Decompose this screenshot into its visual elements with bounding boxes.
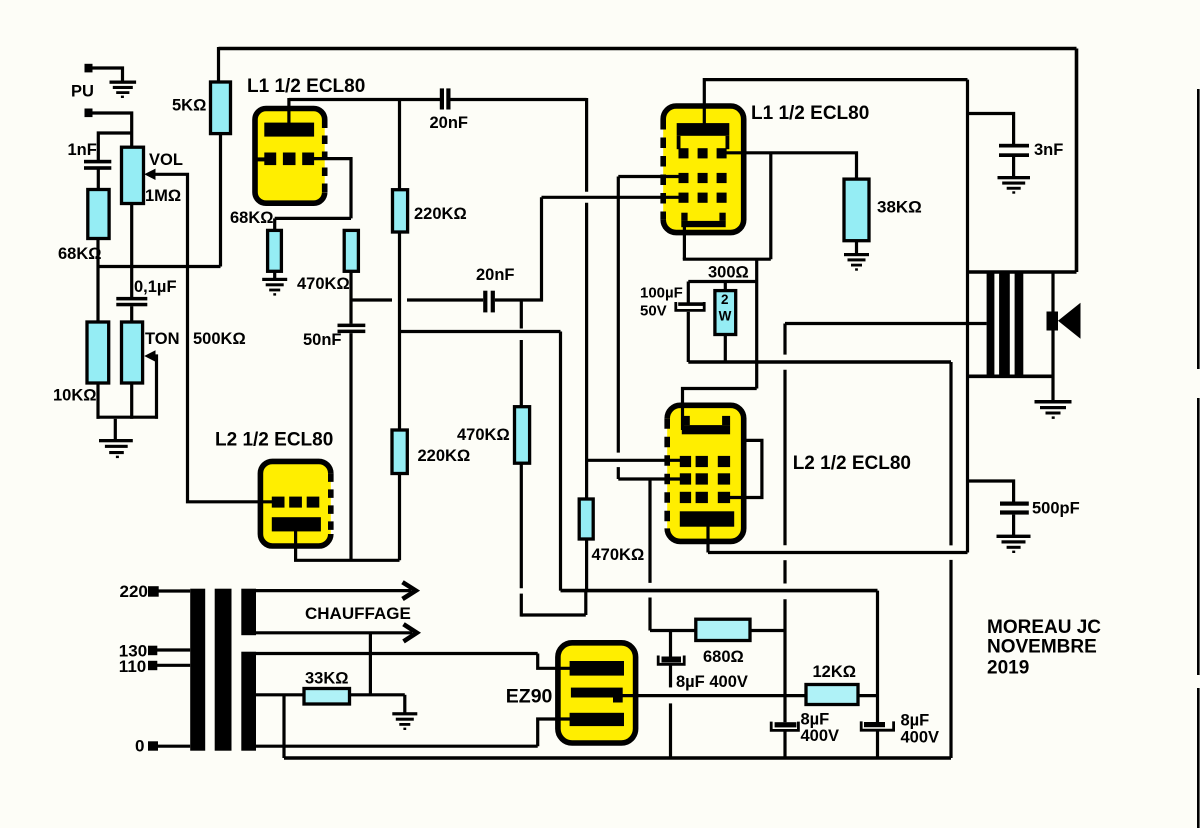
wire 500pF branch y481 (968, 481, 1014, 502)
ground G8 heater (392, 712, 417, 730)
wire x785 seg1 (783, 324, 786, 355)
wire heater line 2 (256, 631, 412, 634)
resistor 10KOhm (87, 322, 109, 383)
wire 8uF2 bottom stem (783, 731, 786, 758)
svg-text:8µF: 8µF (801, 710, 830, 728)
wire ground stem G3 (114, 419, 117, 439)
terminal PU-2 (85, 109, 93, 118)
wire 68K2 top stem (273, 218, 276, 230)
svg-text:L1 1/2 ECL80: L1 1/2 ECL80 (247, 76, 365, 97)
wire x951 drop upper (949, 362, 952, 545)
wire ground stem G8 (403, 695, 406, 713)
wire heater drop x370 (369, 633, 372, 695)
transformer T1 heater winding bar (241, 589, 256, 636)
svg-text:2019: 2019 (987, 658, 1029, 679)
wire 500pF bottom stem (1012, 515, 1015, 535)
svg-text:PU: PU (71, 83, 94, 101)
resistor 220KOhm 1 (393, 190, 408, 232)
wire EZ90 cathode out y695 (618, 694, 806, 697)
transformer T2 secondary bar (1015, 272, 1024, 376)
wire page edge artifact (1197, 89, 1200, 828)
resistor 470KOhm 1 (344, 230, 358, 271)
capacitor C 500pF (1000, 502, 1029, 515)
svg-text:220KΩ: 220KΩ (414, 205, 467, 223)
svg-text:110: 110 (119, 657, 146, 676)
svg-text:500KΩ: 500KΩ (193, 330, 246, 348)
wire x284 drop to rail (282, 695, 285, 758)
svg-text:10KΩ: 10KΩ (53, 386, 97, 404)
svg-text:0: 0 (135, 736, 144, 755)
resistor 12KOhm (806, 685, 858, 705)
svg-text:W: W (719, 309, 732, 324)
svg-text:8µF: 8µF (901, 712, 930, 730)
svg-text:50nF: 50nF (303, 331, 342, 349)
capacitor C 8uF 400V no3 (861, 721, 893, 730)
wire x618 riser lower (617, 467, 620, 479)
wire 130 tap (157, 648, 190, 651)
wire 470K3 bottom stem (585, 539, 588, 591)
tube V4 grid squares row 1 (680, 456, 730, 467)
wire cathode line y259 (683, 258, 771, 261)
transformer T1 HT winding bar (241, 652, 256, 751)
wire cathode branch y300 left (351, 298, 392, 301)
wire anode top line y79 (704, 78, 967, 81)
wire 220K2 bottom (398, 474, 401, 561)
capacitor C 8uF 400V no1 (658, 656, 684, 665)
wire anode line y99 tube1 to x586 (289, 98, 587, 101)
wire x586 riser upper (585, 98, 588, 192)
wire 0 tap (158, 745, 190, 748)
wire x521 riser tail (520, 594, 523, 617)
tube V1 grid squares (264, 153, 314, 166)
wire 300R bottom stem (724, 335, 727, 363)
wire screen line y152 to 38K (718, 153, 857, 179)
wire 220K1 top stem (398, 98, 401, 190)
wire EZ90 plate2 feed (538, 719, 576, 746)
tube V1 internal grid stub left (254, 157, 265, 161)
wire 100uF top stem (687, 282, 690, 303)
wire x618 riser upper (617, 177, 620, 453)
resistor 220KOhm 2 (392, 430, 407, 474)
svg-text:220: 220 (120, 582, 148, 601)
wire 38K bottom to ground (855, 241, 858, 254)
wire branch y331 to x560 (400, 330, 561, 333)
wire tube2 anode stem (703, 78, 706, 126)
wire x521 riser top from y300 (520, 300, 523, 329)
wire B+ feed y323 to output transformer (785, 322, 987, 325)
svg-text:220KΩ: 220KΩ (418, 447, 471, 465)
capacitor C 20nF coupling 2 (483, 291, 495, 313)
svg-text:470KΩ: 470KΩ (457, 426, 510, 444)
wire tube1 output to 470K top (313, 159, 351, 219)
tube V4 cathode bar (680, 511, 734, 526)
wire top B+ rail y48 (219, 47, 1077, 51)
ground G7 under 500pF (997, 535, 1031, 553)
wire 12K right lead (858, 694, 878, 697)
wire 470K1 bottom to 50nF (349, 271, 352, 324)
wire screen B+ line y590 (561, 589, 878, 593)
tube V2 grid squares row 3 (679, 193, 727, 203)
terminal PU-1 (85, 64, 93, 73)
wire x967 main drop (966, 80, 969, 553)
wire VOL wiper / 500K line (151, 174, 274, 502)
wire x650 drop upper (648, 479, 651, 583)
svg-text:12KΩ: 12KΩ (813, 663, 857, 681)
tube V3 L2 triode body (260, 461, 330, 546)
resistor 68KOhm grid (268, 230, 282, 271)
svg-text:NOVEMBRE: NOVEMBRE (987, 636, 1097, 657)
tube V2 grid squares row 1 (679, 148, 727, 158)
tube V3 grid squares (272, 497, 320, 508)
wire tube4 g3 loop (728, 440, 762, 497)
wire x785 seg2 (783, 370, 786, 545)
tube V1 anode plate bar (264, 123, 314, 137)
tube EZ90 body (558, 643, 636, 743)
ground G4 under 38K (844, 253, 869, 271)
svg-text:20nF: 20nF (476, 266, 515, 284)
wire 3nF branch y113 (968, 114, 1014, 145)
tube V2 L1 pentode body (663, 106, 744, 233)
tube V4 grid squares row 3 (680, 492, 730, 503)
wire tube3 cathode line y560 (294, 559, 400, 562)
wire TON wiper return (151, 356, 157, 419)
wire cathode line y551 (708, 551, 968, 554)
svg-text:300Ω: 300Ω (708, 264, 749, 282)
wire x586 riser lower to 470K (585, 203, 588, 499)
svg-text:100µF: 100µF (640, 285, 683, 302)
tube EZ90 plate bar 1 (570, 661, 624, 676)
tube EZ90 cathode bar (571, 688, 623, 703)
tube V2 anode plate bar with legs (677, 123, 730, 149)
wire bottom junction bar y417 (97, 416, 159, 419)
wire tube4 anode link y388 (683, 389, 757, 431)
svg-text:20nF: 20nF (430, 114, 469, 132)
wire 50nF bottom long riser (349, 333, 352, 560)
wire ground rail y758 (284, 756, 951, 760)
transformer T1 core bar (215, 589, 232, 751)
wire PU input 2 to VOL top (92, 113, 132, 147)
resistor 680Ohm (696, 619, 750, 640)
svg-text:MOREAU JC: MOREAU JC (987, 617, 1101, 638)
wire 1nF bottom to 68K top (97, 170, 100, 191)
wire 0.1uF bottom to TON (130, 306, 133, 322)
tube V3 cathode bar (272, 517, 321, 531)
capacitor C 50nF (338, 324, 366, 334)
wire EZ90 plate1 feed (538, 654, 576, 669)
wire 680R left lead (650, 629, 696, 632)
wire 300R top stem (724, 282, 727, 291)
terminal 130V (148, 646, 157, 656)
svg-text:33KΩ: 33KΩ (305, 670, 349, 688)
transformer T2 output primary bar (987, 272, 995, 376)
wire x521 riser to 470K2 (520, 340, 523, 407)
wire output transformer bottom y376 (968, 374, 1054, 378)
wire grid line y197 to tube2 (542, 196, 682, 199)
wire 8uF3 bottom stem (876, 730, 879, 758)
wire grid line y176 to tube2 (618, 175, 681, 178)
wire grid line y479 to tube4 (618, 477, 681, 480)
tube V1 L1 triode body (255, 109, 325, 204)
wire 8uF1 bottom stem lower (669, 703, 672, 758)
wire rectifier heater line y694 right (350, 693, 405, 696)
arrow chauffage 1 (403, 582, 416, 599)
tube V2 grid squares row 2 (679, 173, 727, 183)
svg-text:680Ω: 680Ω (703, 648, 744, 666)
wire x877 drop (876, 591, 879, 723)
wire x521 riser below 470K2 (520, 463, 523, 588)
wire 10K bottom (96, 383, 99, 419)
resistor 300Ohm 2W (715, 291, 736, 335)
wire node junction y266.5 (97, 265, 221, 268)
svg-text:470KΩ: 470KΩ (592, 546, 645, 564)
wire y615 link (521, 613, 586, 616)
svg-text:VOL: VOL (149, 151, 183, 169)
wire x560 drop (559, 332, 562, 591)
tube V4 L2 pentode body (667, 405, 744, 541)
wire right box edge x1076 (1075, 49, 1079, 273)
wire 8uF1 bottom stem upper (669, 665, 672, 688)
wire TON bottom (130, 383, 133, 419)
wire cathode branch y300 right to 20nF2 (407, 298, 483, 301)
wire output transformer top y272 (968, 270, 1077, 274)
arrow TON wiper (144, 350, 155, 361)
wire HT top line y653 (256, 652, 538, 655)
svg-text:400V: 400V (901, 729, 940, 747)
resistor 38KOhm (844, 179, 869, 241)
svg-text:3nF: 3nF (1034, 141, 1063, 159)
wire x756 drop (755, 259, 758, 388)
svg-text:50V: 50V (640, 303, 667, 320)
terminal 0V (148, 741, 158, 750)
svg-text:EZ90: EZ90 (506, 686, 553, 708)
capacitor C 20nF coupling 1 (440, 88, 451, 109)
svg-text:8µF 400V: 8µF 400V (676, 673, 748, 691)
wire tube3 cathode stem (294, 530, 297, 560)
wire tube1 anode stem (287, 98, 290, 124)
label 8uF no2 (801, 710, 840, 745)
label 8uF no3 (901, 712, 940, 747)
resistor 470KOhm 2 (515, 407, 530, 464)
ground G6 under speaker (1035, 400, 1072, 419)
arrow chauffage 2 (404, 624, 417, 641)
terminal 110V (148, 661, 157, 670)
svg-text:500pF: 500pF (1032, 500, 1080, 518)
wire VOL bottom to 0.1uF (130, 204, 133, 298)
capacitor C 1nF (84, 160, 111, 170)
wire 220 tap (158, 589, 190, 592)
tube V2 cathode cup (681, 213, 725, 228)
wire 110 tap (157, 664, 190, 667)
label 2W (719, 292, 732, 324)
transformer T1 power primary bar (190, 589, 205, 751)
wire RC top line y281 (688, 280, 756, 283)
wire heater line 1 (256, 589, 411, 592)
wire 68K2 bottom to ground (273, 271, 276, 278)
resistor 5KOhm (211, 82, 231, 134)
wire x770 drop to cathode line (769, 153, 772, 259)
wire x951 drop lower (949, 560, 952, 758)
svg-text:400V: 400V (801, 727, 840, 745)
svg-text:L1 1/2 ECL80: L1 1/2 ECL80 (751, 103, 869, 124)
wire branch to 1nF (98, 133, 133, 160)
wire x785 seg4 (783, 599, 786, 722)
ground G2 under 68K (262, 278, 287, 296)
wire tube4 cathode stem (706, 525, 709, 553)
wire PU input 1 to ground (92, 68, 123, 81)
capacitor C 0.1uF (116, 297, 147, 306)
capacitor C 8uF 400V no2 (771, 722, 798, 731)
svg-text:68KΩ: 68KΩ (230, 209, 274, 227)
resistor 470KOhm 3 (579, 499, 593, 539)
tube V4 anode cup with legs (682, 416, 730, 434)
svg-text:L2 1/2 ECL80: L2 1/2 ECL80 (793, 453, 911, 474)
tube EZ90 plate bar 2 (570, 713, 624, 726)
transformer T2 core bar (999, 272, 1010, 376)
svg-text:0,1µF: 0,1µF (134, 278, 177, 296)
svg-text:L2 1/2 ECL80: L2 1/2 ECL80 (215, 430, 333, 451)
ground G5 under 3nF (998, 176, 1031, 194)
resistor 33KOhm (304, 689, 350, 705)
wire x785 seg3 (783, 560, 786, 583)
potentiometer VOL 1M (122, 147, 144, 203)
ground G1 PU (110, 81, 137, 99)
svg-text:TON: TON (145, 330, 180, 348)
ground G3 tone stack (99, 439, 133, 458)
svg-text:470KΩ: 470KΩ (297, 275, 350, 293)
wire 100uF bottom stem (687, 312, 690, 362)
wire 5K top riser (217, 47, 220, 82)
wire grid line y460 to tube4 (587, 459, 681, 462)
wire 3nF bottom stem (1012, 157, 1015, 177)
wire 680R right lead (750, 629, 785, 632)
wire rectifier heater line y694 left (255, 693, 304, 696)
tube V4 grid squares row 2 (680, 473, 730, 484)
wire x650 drop lower (648, 598, 651, 631)
terminal 220V (148, 586, 159, 597)
svg-text:1nF: 1nF (68, 141, 97, 159)
svg-text:68KΩ: 68KΩ (58, 245, 102, 263)
wire 5K bottom riser (219, 134, 222, 267)
svg-text:5KΩ: 5KΩ (172, 96, 206, 114)
capacitor C 100uF 50V (676, 302, 704, 310)
wire x585 stub to B+ line (584, 591, 587, 615)
wire HT bottom line y746 (256, 745, 538, 748)
svg-text:CHAUFFAGE: CHAUFFAGE (305, 604, 411, 623)
speaker LS (1047, 303, 1081, 339)
wire 8uF1 top stem (669, 631, 672, 657)
svg-text:1MΩ: 1MΩ (145, 187, 181, 205)
wire 68K bottom to 10K top (96, 239, 99, 323)
svg-text:38KΩ: 38KΩ (877, 198, 922, 217)
wire x399 riser middle (398, 232, 401, 430)
svg-text:2: 2 (721, 292, 729, 307)
arrow VOL wiper (144, 169, 155, 180)
wire 20nF2 right to riser x541 (495, 197, 542, 300)
wire 68K2-470K1 link y218 (275, 217, 351, 220)
resistor 68KOhm left (88, 190, 109, 239)
wire RC bottom line y362 to x951 (688, 360, 951, 364)
wire speaker drop x1053 (1051, 272, 1054, 400)
capacitor C 3nF (999, 144, 1029, 157)
potentiometer TON 500K (122, 322, 143, 383)
wire tube2 cathode stem (683, 226, 686, 259)
